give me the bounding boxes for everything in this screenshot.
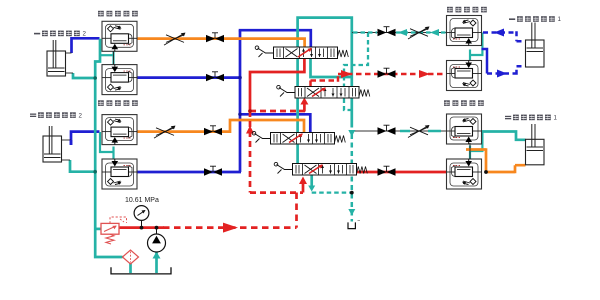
wire red: line4R valve V4 to box R4 [356,171,447,174]
svg-text:2: 2 [83,31,87,38]
wire teal: left return trunk down to relief and filter [95,39,122,257]
balance valve R3 (lower-right pair top) [447,114,482,144]
wire teal dashed: V4 drain to trunk [312,191,352,193]
wire blue: trunk vertical [239,30,242,172]
gate valve line1 left [206,33,224,43]
svg-text:1: 1 [554,115,558,122]
wire: line3R thin black carrier [352,130,447,132]
wire teal: V3 bottom to V4 top [296,143,299,164]
arrowhead red right on pump line [223,223,238,233]
cylinder L2 (second stage left) [43,126,71,162]
wire teal: cylinder L1 cap port to left return trunk [73,73,95,78]
wire red: valve V1 bottom to left red drop [250,58,304,112]
wire teal: V1 bottom port to trunk [311,58,352,78]
wire teal: pilot R1-R2 [470,33,482,56]
arrowhead teal left on line1R near R1 [430,29,439,36]
wire teal: cylinder L2 cap port to trunk [70,160,95,172]
red diagonal in V3 [289,134,302,143]
svg-text:10.61 MPa: 10.61 MPa [125,197,159,204]
balance valve BV3 (lower-left pair top) [102,115,137,145]
balance valve R4 (lower-right pair bottom, mirrored) [447,159,482,189]
label: second-stage cylinder 1 [505,115,558,122]
gate valve line3 right [378,125,396,135]
arrowhead blue left on R1 line [494,29,504,37]
svg-text:2: 2 [79,112,83,119]
gate valve line4 right [378,166,396,176]
directional valve V4 [274,162,367,175]
wire teal: box R3 to cylinder R2 rod port [481,132,526,140]
wire blue: cylinder L1 rod port to balance valve BV1 [72,38,100,53]
arrowhead blue right on R1 cap line [497,70,507,78]
wire red solid: relief to pump junctions [119,226,164,229]
wire red dashed: drop continues to lower manifold [249,111,252,193]
label: second-stage cylinder 2 [30,112,83,119]
wire teal: pump suction from tank [155,252,158,273]
wire orange: box R4 to cylinder R2 cap port [466,148,526,173]
wire teal dashed: pilot loop right of valves [344,33,368,111]
wire red dashed: cross line y111 [250,110,300,113]
tank main [111,267,171,274]
red diagonal in V4 [309,165,322,174]
directional valve V1 [255,46,348,59]
red diagonal in V2 [312,88,325,97]
wire teal: pilot jog BV1-BV2 [100,54,114,56]
red diagonal in V1 [298,49,311,58]
gate valve line3 left [204,126,222,136]
wire teal: pilot R3-R4 [470,131,482,151]
arrowheads red right on line2R [341,70,352,78]
balance valve R2 (upper-right pair bottom, mirrored) [447,61,482,91]
tank center small [348,222,355,228]
label: first-stage cylinder 2 [34,31,87,38]
wire teal: V2 bottom to V3 top [296,97,299,133]
cylinder R2 (second stage right) [526,124,545,165]
arrowhead teal left on line1R [398,29,407,36]
gate valve line2 right [378,68,396,78]
gate valve line1 right [378,27,396,37]
wire blue: box R2 riser [482,48,488,74]
label: balance valve right-lower [444,100,484,106]
node: teal drain junction [350,191,354,195]
cylinder R1 (first stage right) [526,23,545,68]
gate valve line4 left [204,166,222,176]
wire red dashed: manifold y192 [250,191,303,194]
label: balance valve top-left [98,11,138,17]
throttle valve line3 right [408,125,430,138]
arrowhead red up on drop [246,126,254,134]
wire red: arrow up into valve V2 [303,102,306,112]
balance valve BV2 (upper-left pair bottom, mirrored) [102,65,137,95]
pressure gauge [134,206,149,227]
balance valve R1 (upper-right pair top) [447,16,482,46]
wire teal: pilot jog BV3-BV4 [100,132,114,152]
wire teal: filter to tank [129,264,132,274]
wire blue: top run to valve V1 [239,30,311,47]
wire teal: top loop valve V1 to center trunk [298,18,352,128]
wire teal: V4 bottom drain with arrow [310,175,313,188]
wire teal: center trunk dashed to tank [351,134,354,222]
balance valve BV4 (lower-left pair bottom, mirrored) [102,159,137,189]
wire orange: line3 BV3 to valve V3 [138,120,305,132]
arrowhead teal down on trunk below line3R [348,130,355,137]
wire blue: mid run to valve V3 [240,114,310,132]
wire blue dashed: box R1 to cylinder R1 rod port [483,31,526,41]
arrowhead teal down on center trunk lower [348,209,355,216]
wire teal dashed: line1R trunk to box R1 [353,31,447,33]
wire: line1R thin black carrier [352,32,447,34]
wire teal: stub into relief valve [95,228,101,231]
balance valve BV1 (upper-left pair top) [102,21,137,51]
label: balance valve left-lower [98,100,138,106]
node: red drop junction [248,109,252,113]
black interconnect R3-R4 [469,143,471,159]
cylinder L1 (first stage left) [47,40,73,76]
wire teal: V1 bottom to V2 top [296,58,299,87]
throttle valve line3 left [154,126,176,139]
directional valve V2 [277,85,370,98]
wire orange: line1 BV1 to valve V1 [138,39,305,47]
wire blue: line2 BV2 to trunk [138,76,242,79]
wire red dashed: line2R valve V2 to box R2 [311,74,447,86]
throttle valve line1 left [164,33,186,46]
wire red dashed: pump pressure line [163,193,297,228]
wire blue: line4 BV4 to trunk [138,171,242,174]
node: teal trunk junctions [93,76,97,80]
node: orange junction right [484,170,488,174]
label: balance valve top-right [447,7,487,13]
wire blue: cylinder L2 rod port to BV3 [71,132,100,145]
wire teal: line3R teal dashes [400,130,441,132]
label: first-stage cylinder 1 [509,16,562,23]
wire red: arrow up into valve V4 [302,181,305,193]
node: gauge and pump junctions [140,226,144,230]
throttle valve line1 right [408,27,430,40]
wire blue dashed: line to cylinder R1 cap port [487,66,526,74]
directional valve V3 [252,131,345,144]
relief valve [101,217,127,244]
svg-text:1: 1 [558,16,562,23]
filter [123,250,139,264]
gate valve line2 left [206,72,224,82]
node: blue trunk junctions [238,76,242,80]
black interconnect BV1-BV2 [113,51,115,64]
pump [148,228,166,252]
